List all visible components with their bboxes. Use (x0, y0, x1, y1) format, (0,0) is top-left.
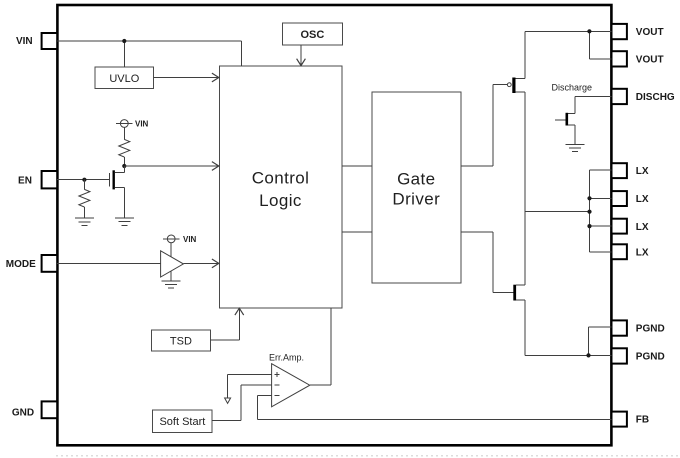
svg-text:VIN: VIN (183, 235, 197, 244)
wire FB to inverting input (257, 396, 611, 420)
pin LX 4 (612, 244, 649, 259)
svg-text:VIN: VIN (16, 36, 33, 47)
svg-text:FB: FB (636, 415, 649, 426)
block Control Logic U1 (219, 66, 341, 308)
pin VOUT (lower) (612, 51, 664, 66)
node VIN junction (122, 39, 126, 43)
ground (Discharge) (566, 144, 585, 151)
pin VOUT (upper) (612, 24, 664, 39)
transistor Q3 (low-side NMOS) (515, 285, 526, 301)
VIN supply terminal (MODE buffer) (163, 235, 197, 244)
node PGND junction (586, 353, 590, 357)
block OSC (282, 23, 342, 45)
pin LX 1 (612, 163, 649, 178)
ground (MODE buffer) (162, 281, 181, 288)
wire Q2 drain to VOUT (525, 31, 611, 78)
svg-text:GND: GND (12, 407, 34, 418)
block Soft Start (153, 410, 212, 432)
resistor R1 (EN pull-up) (119, 127, 130, 166)
svg-text:Logic: Logic (259, 191, 302, 210)
pin VIN (16, 33, 57, 49)
block Gate Driver U2 (372, 92, 461, 283)
block TSD (151, 330, 210, 351)
transistor Q4 (Discharge NMOS) (552, 83, 612, 145)
block UVLO (95, 67, 154, 89)
pin LX 2 (612, 191, 649, 206)
wire switch node vertical (524, 92, 526, 285)
wire VIN net horizontal (57, 41, 241, 67)
node LX junction 2 (587, 210, 591, 214)
svg-text:EN: EN (18, 175, 32, 186)
svg-text:Gate: Gate (397, 169, 435, 188)
buffer U3 (MODE input) (161, 243, 184, 281)
wire err amp output to Control Logic (310, 308, 331, 385)
node LX junction 3 (587, 224, 591, 228)
wire OSC output arrow (297, 45, 306, 66)
pin PGND (lower) (612, 348, 665, 363)
pin PGND (upper) (612, 320, 665, 335)
svg-text:Soft Start: Soft Start (159, 416, 205, 428)
transistor Q1 (EN input NMOS) (109, 166, 124, 218)
wire LX net (525, 170, 611, 252)
pin DISCHG (612, 89, 675, 104)
resistor R2 (EN pull-down) (79, 180, 90, 219)
svg-text:Control: Control (252, 169, 310, 188)
wire err amp non-inverting input (228, 375, 272, 398)
pin EN (18, 171, 57, 188)
svg-text:VOUT: VOUT (636, 27, 664, 38)
ground (EN pull-down) (75, 218, 94, 225)
outer IC boundary box (57, 5, 611, 445)
wire low-side gate route (461, 232, 513, 293)
svg-text:VOUT: VOUT (636, 55, 664, 66)
svg-text:Driver: Driver (392, 189, 440, 208)
svg-text:Discharge: Discharge (552, 83, 593, 93)
svg-text:VIN: VIN (135, 119, 149, 128)
wire Control Logic to Gate Driver (lower) (342, 231, 372, 233)
svg-text:LX: LX (636, 166, 649, 177)
reference arrow (open triangle) (225, 398, 231, 403)
VIN supply terminal (EN pull-up) (116, 119, 149, 128)
wire Q3 source to PGND (525, 300, 611, 355)
svg-text:OSC: OSC (300, 29, 324, 41)
wire EN input (57, 179, 109, 181)
wire high-side gate route (461, 85, 508, 166)
ground (Q1 source) (115, 218, 134, 225)
svg-text:MODE: MODE (6, 259, 36, 270)
pin LX 3 (612, 219, 649, 234)
node VOUT junction (587, 29, 591, 33)
wire TSD output arrow (211, 308, 244, 340)
wire Control Logic to Gate Driver (upper) (342, 165, 372, 167)
svg-text:PGND: PGND (636, 324, 665, 335)
svg-text:DISCHG: DISCHG (636, 92, 675, 103)
pin FB (612, 412, 650, 427)
svg-text:UVLO: UVLO (109, 73, 139, 85)
pin GND (12, 401, 57, 418)
pin MODE (6, 255, 57, 272)
svg-text:LX: LX (636, 194, 649, 205)
wire EN to Control Logic arrow (124, 162, 219, 171)
wire MODE input (57, 262, 160, 264)
svg-text:Err.Amp.: Err.Amp. (269, 352, 304, 362)
op-amp U4 Err.Amp. (269, 352, 310, 407)
svg-text:LX: LX (636, 222, 649, 233)
wire MODE buffer to Control Logic arrow (183, 259, 218, 268)
wire UVLO output arrow (154, 73, 219, 82)
transistor Q2 (high-side PMOS) (507, 78, 525, 94)
svg-text:LX: LX (636, 247, 649, 258)
node LX junction 1 (587, 196, 591, 200)
svg-text:PGND: PGND (636, 352, 665, 363)
svg-text:TSD: TSD (170, 335, 192, 347)
node EN junction (82, 178, 86, 182)
wire soft start to inverting input (212, 385, 272, 421)
node EN comparator output (122, 164, 126, 168)
page artifact dashed line (56, 455, 678, 457)
